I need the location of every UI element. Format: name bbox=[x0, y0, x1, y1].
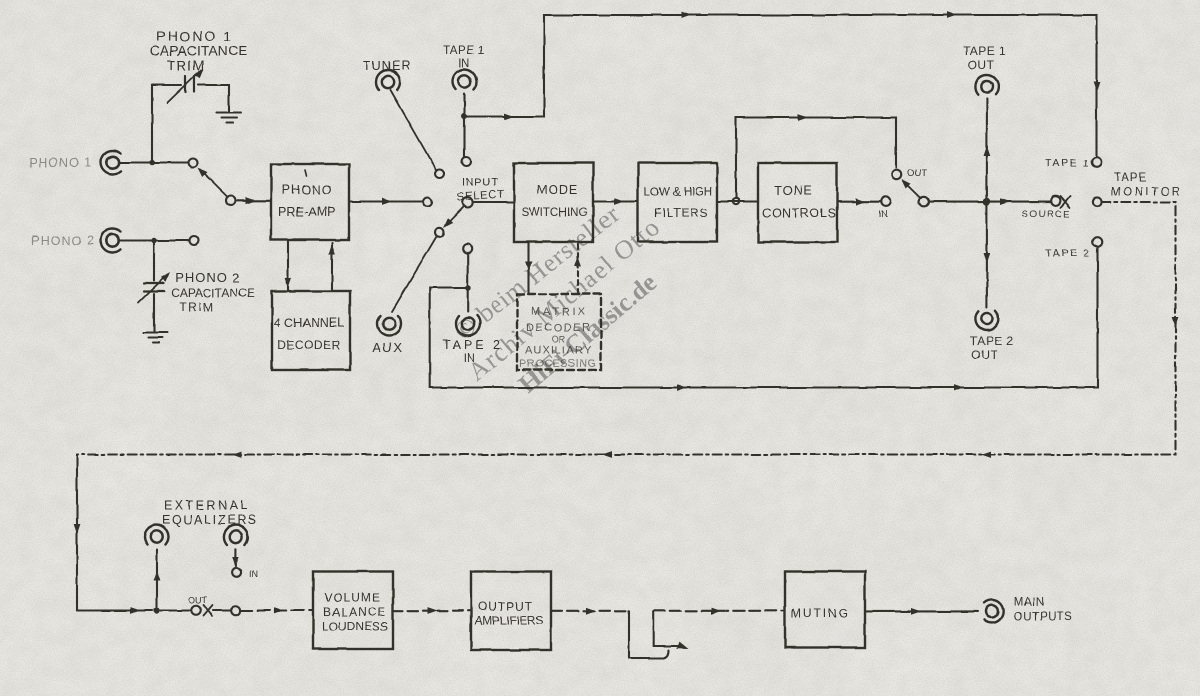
svg-text:4 CHANNEL: 4 CHANNEL bbox=[274, 316, 344, 330]
wire junction to TAPE 1 OUT bbox=[984, 98, 991, 198]
svg-text:IN: IN bbox=[249, 569, 258, 579]
contact tuner select bbox=[435, 169, 444, 178]
svg-text:BALANCE: BALANCE bbox=[323, 605, 385, 619]
svg-text:MODE: MODE bbox=[537, 183, 579, 197]
wire junction to TAPE 2 OUT bbox=[984, 206, 991, 308]
svg-text:PROCESSING: PROCESSING bbox=[519, 358, 596, 370]
svg-text:TAPE 2: TAPE 2 bbox=[1045, 248, 1089, 260]
capacitor C2 phono2 trim (variable) bbox=[138, 270, 173, 303]
label TAPE MONITOR bbox=[1111, 172, 1180, 199]
jack TAPE 1 OUT bbox=[975, 75, 998, 94]
wire eq common to volume block bbox=[241, 607, 313, 614]
junction tape1 in bbox=[462, 114, 468, 120]
ground phono1 trim bbox=[217, 113, 242, 123]
contact SOURCE bbox=[1051, 196, 1060, 205]
svg-text:OUT: OUT bbox=[188, 596, 208, 606]
svg-text:OR: OR bbox=[552, 334, 566, 344]
jack TAPE 2 OUT bbox=[975, 311, 998, 330]
wire filters to tone with node bbox=[717, 200, 758, 202]
label TAPE 1 IN bbox=[443, 45, 485, 70]
wire matrix to mode (dashed up) bbox=[575, 243, 582, 294]
contact phono1 select bbox=[189, 158, 198, 167]
wire mode to matrix (down) bbox=[525, 242, 532, 294]
svg-text:LOUDNESS: LOUDNESS bbox=[322, 620, 388, 634]
wire preamp out to phono contact bbox=[349, 198, 423, 205]
wire decoder to preamp (up) bbox=[329, 243, 336, 291]
jack TAPE 2 IN bbox=[456, 315, 480, 335]
svg-text:PHONO 2: PHONO 2 bbox=[175, 270, 241, 285]
svg-text:OUTPUT: OUTPUT bbox=[478, 600, 533, 614]
contact tape2 select bbox=[463, 244, 472, 253]
jack EXTERNAL EQUALIZER IN bbox=[224, 525, 248, 545]
svg-text:IN: IN bbox=[458, 58, 470, 70]
block MODE SWITCHING bbox=[514, 163, 593, 242]
svg-text:IN: IN bbox=[464, 353, 476, 365]
wire phono1 jack to select contact bbox=[119, 161, 189, 163]
label MAIN OUTPUTS bbox=[1014, 597, 1072, 624]
svg-text:TAPE 1: TAPE 1 bbox=[963, 44, 1006, 58]
wire eq junction to OUT contact bbox=[161, 609, 191, 611]
svg-text:TAPE 2: TAPE 2 bbox=[970, 334, 1013, 348]
wire eq in jack down to IN contact bbox=[233, 549, 239, 566]
block TONE CONTROLS bbox=[758, 163, 837, 242]
wire select common to mode switching bbox=[473, 201, 514, 203]
switch arm tape out bbox=[899, 177, 921, 199]
svg-text:CAPACITANCE: CAPACITANCE bbox=[171, 286, 255, 300]
node after filters bbox=[733, 198, 739, 204]
wire mode to filters bbox=[593, 198, 638, 205]
wire phono2 jack to contact bbox=[119, 239, 190, 241]
svg-text:VOLUME: VOLUME bbox=[324, 591, 380, 605]
label PHONO 1 CAPACITANCE TRIM bbox=[150, 28, 248, 73]
watermark HiFi-Classic.de bbox=[449, 200, 665, 399]
junction phono2 trim bbox=[151, 238, 156, 243]
wire phono2 trim bbox=[153, 242, 155, 332]
svg-text:MUTING: MUTING bbox=[791, 607, 848, 621]
wire tape2 bus to monitor tape2 contact bbox=[430, 247, 1098, 391]
contact OUT (tape out switch) bbox=[892, 170, 902, 180]
contact eq IN bbox=[232, 568, 241, 577]
wire tone controls out to IN contact bbox=[837, 198, 881, 205]
block PHONO PRE-AMP bbox=[271, 164, 349, 240]
capacitor C1 phono1 trim (variable) bbox=[167, 67, 206, 103]
label TAPE 1 OUT bbox=[963, 44, 1006, 72]
wire tape1in down to contact bbox=[463, 94, 465, 157]
jack PHONO 2 bbox=[101, 229, 121, 253]
wire muting to main outputs bbox=[865, 608, 978, 615]
wire phono1 trim loop bbox=[152, 85, 229, 161]
ground phono2 trim bbox=[143, 333, 167, 343]
svg-text:TUNER: TUNER bbox=[363, 59, 411, 73]
wire output amp out segment bbox=[551, 607, 629, 614]
svg-text:EQUALIZERS: EQUALIZERS bbox=[162, 513, 256, 527]
svg-text:MATRIX: MATRIX bbox=[531, 306, 586, 318]
wire tape2 select contact down to jack bbox=[467, 253, 469, 312]
X mark source select bbox=[1061, 197, 1071, 208]
wire to muting block (dashed) bbox=[654, 608, 785, 615]
contact tape1 select bbox=[462, 157, 471, 166]
wire phono common to preamp bbox=[237, 197, 272, 204]
svg-text:AUXILIARY: AUXILIARY bbox=[525, 345, 592, 357]
jack AUX bbox=[377, 315, 401, 335]
block 4 CHANNEL DECODER bbox=[272, 291, 350, 370]
svg-text:EXTERNAL: EXTERNAL bbox=[164, 499, 247, 513]
wire preamp to decoder (down) bbox=[285, 240, 292, 289]
jack MAIN OUTPUTS bbox=[984, 600, 1003, 623]
wire left return down bbox=[74, 455, 81, 611]
svg-text:INPUT: INPUT bbox=[462, 177, 499, 189]
wire top bus tape1in to monitor tape1 contact bbox=[467, 12, 1100, 157]
junction tape out node bbox=[983, 198, 991, 206]
wire aux to select contact bbox=[392, 237, 437, 312]
contact aux select bbox=[435, 228, 444, 237]
svg-text:PRE-AMP: PRE-AMP bbox=[279, 205, 336, 219]
svg-text:LOW & HIGH: LOW & HIGH bbox=[644, 187, 712, 199]
svg-text:DECODER: DECODER bbox=[277, 338, 341, 352]
svg-text:IN: IN bbox=[878, 209, 888, 220]
jack TUNER bbox=[376, 70, 400, 90]
contact phono position (input select) bbox=[423, 198, 432, 207]
svg-text:MAIN: MAIN bbox=[1014, 597, 1045, 609]
contact TAPE 1 monitor bbox=[1092, 157, 1102, 167]
wire bottom main to eq junction bbox=[77, 607, 153, 614]
wire junction to source contact bbox=[991, 198, 1051, 205]
svg-text:AUX: AUX bbox=[372, 340, 403, 355]
svg-text:PHONO 2: PHONO 2 bbox=[31, 234, 94, 248]
svg-text:FILTERS: FILTERS bbox=[654, 206, 709, 220]
svg-text:OUT: OUT bbox=[968, 58, 995, 72]
contact phono2 select bbox=[190, 236, 199, 245]
switch speaker tap bbox=[654, 611, 690, 653]
wire eq junction up to jack bbox=[154, 550, 161, 607]
svg-text:AMPLIFIERS: AMPLIFIERS bbox=[475, 614, 544, 628]
block LOW & HIGH FILTERS bbox=[638, 163, 717, 242]
jack TAPE 1 IN bbox=[453, 70, 477, 90]
junction tape2 in bbox=[465, 285, 471, 291]
svg-text:OUTPUTS: OUTPUTS bbox=[1014, 612, 1072, 624]
svg-text:TONE: TONE bbox=[774, 184, 813, 198]
svg-text:TRIM: TRIM bbox=[179, 300, 214, 314]
contact IN (tape out switch) bbox=[881, 197, 891, 207]
switch arm input select bbox=[441, 206, 464, 230]
label TAPE 2 IN bbox=[443, 338, 500, 365]
junction phono1 trim bbox=[149, 160, 154, 165]
wire speaker switch jog down bbox=[629, 611, 669, 658]
svg-text:SOURCE: SOURCE bbox=[1022, 209, 1070, 220]
wire bypass filters-node to OUT contact bbox=[736, 114, 896, 198]
contact eq OUT bbox=[191, 606, 201, 616]
svg-text:OUT: OUT bbox=[907, 168, 927, 179]
jack PHONO 1 bbox=[101, 151, 121, 175]
block OUTPUT AMPLIFIERS bbox=[471, 572, 551, 651]
X mark eq switch bbox=[204, 606, 213, 617]
jack EXTERNAL EQUALIZER OUT bbox=[145, 525, 169, 545]
common input select bbox=[463, 198, 473, 208]
junction eq out bbox=[154, 607, 160, 613]
svg-text:PHONO: PHONO bbox=[282, 183, 333, 197]
wire eq X to common bbox=[213, 609, 231, 611]
common tape out switch bbox=[919, 197, 929, 207]
wire tape switch common to junction bbox=[929, 201, 984, 203]
svg-text:TAPE 1: TAPE 1 bbox=[1045, 158, 1089, 170]
svg-text:TAPE 1: TAPE 1 bbox=[443, 45, 485, 57]
svg-text:SWITCHING: SWITCHING bbox=[522, 207, 588, 219]
label INPUT SELECT bbox=[457, 177, 505, 204]
svg-text:TAPE: TAPE bbox=[1114, 172, 1147, 184]
svg-text:OUT: OUT bbox=[971, 348, 998, 362]
block MATRIX DECODER OR AUXILIARY PROCESSING (dashed) bbox=[517, 294, 601, 370]
switch arm phono select bbox=[195, 165, 227, 197]
svg-text:DECODER: DECODER bbox=[526, 322, 590, 334]
wire tuner to select contact bbox=[391, 90, 437, 171]
label PHONO 2 CAPACITANCE TRIM bbox=[171, 270, 255, 314]
common tape monitor bbox=[1092, 197, 1101, 206]
contact TAPE 2 monitor bbox=[1093, 237, 1103, 247]
svg-text:CONTROLS: CONTROLS bbox=[762, 207, 836, 221]
block MUTING bbox=[785, 572, 865, 648]
svg-text:PHONO 1: PHONO 1 bbox=[29, 156, 92, 170]
block VOLUME BALANCE LOUDNESS bbox=[313, 572, 393, 650]
label TAPE 2 OUT bbox=[970, 334, 1013, 362]
common phono switch bbox=[226, 196, 236, 206]
wire volume to output amplifiers bbox=[393, 607, 471, 614]
label EXTERNAL EQUALIZERS bbox=[162, 499, 256, 528]
wire tape monitor dash-dot feedback bbox=[77, 202, 1179, 458]
common eq switch bbox=[231, 606, 241, 616]
